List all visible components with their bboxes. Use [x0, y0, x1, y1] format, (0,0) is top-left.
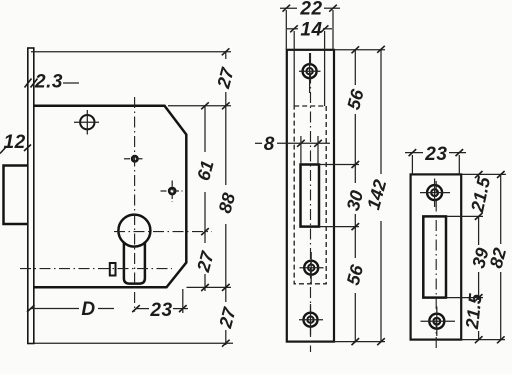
- svg-text:D: D: [81, 299, 95, 320]
- svg-text:23: 23: [424, 144, 447, 165]
- extension line case top right: [168, 105, 231, 107]
- extension lines for 14 down to dashed rect: [293, 31, 295, 106]
- dim line x355: 56 30 56: [343, 46, 368, 345]
- screw hole 1: [420, 179, 450, 208]
- plate vertical centerline: [435, 181, 437, 350]
- crosshair through cylinder circle: [114, 231, 212, 233]
- plate outline: [287, 50, 334, 342]
- dashed case outline behind plate: [294, 106, 326, 284]
- extension plate bottom right: [334, 341, 385, 343]
- deadbolt: [4, 166, 28, 225]
- extension slot top: [446, 215, 483, 217]
- faceplate (edge view): [28, 48, 34, 344]
- dim 8 slot width: [255, 134, 330, 165]
- hole A top-left: [74, 110, 99, 135]
- euro cylinder hole: [118, 215, 150, 284]
- dim 22: [280, 0, 340, 20]
- dim line x205: 61 and 27: [193, 102, 218, 291]
- extension plate bottom: [461, 339, 505, 341]
- dim D line: [27, 299, 114, 320]
- bolt slot: [301, 165, 320, 227]
- svg-text:12: 12: [4, 132, 26, 153]
- dim line x500: 82: [486, 171, 511, 343]
- vertical centerline cylinder axis: [134, 97, 136, 312]
- svg-text:22: 22: [299, 0, 322, 20]
- dim 12 bolt projection: [0, 132, 31, 154]
- plate vertical centerline: [310, 53, 312, 352]
- pin rectangle left of cylinder: [110, 263, 116, 276]
- svg-text:2.3: 2.3: [34, 72, 63, 93]
- extension lines for 23: [411, 155, 413, 174]
- extension slot bottom: [446, 297, 483, 299]
- screw hole 2: [421, 307, 456, 337]
- extension slot bottom: [319, 226, 359, 228]
- dim 2.3 faceplate thickness: [25, 72, 80, 93]
- small hole B center: [124, 156, 145, 161]
- top dimension line from faceplate top: [31, 51, 231, 53]
- svg-text:23: 23: [149, 300, 172, 321]
- extension lines for 22: [285, 10, 287, 50]
- dim 23: [405, 144, 466, 165]
- dim 23 backset: [132, 289, 188, 321]
- latch slot: [423, 216, 446, 297]
- plate outline: [411, 174, 462, 339]
- dim line x226: 27 88 27: [213, 52, 240, 347]
- lock case outline: [34, 106, 187, 287]
- extension plate top right: [334, 49, 385, 51]
- svg-text:21.5: 21.5: [462, 292, 486, 331]
- dim 14: [287, 19, 332, 40]
- horizontal centerline follower axis: [20, 268, 172, 270]
- screw hole 2: [300, 252, 324, 283]
- svg-text:14: 14: [300, 19, 322, 40]
- small hole C: [161, 181, 183, 203]
- screw hole 1: [299, 53, 321, 93]
- extension slot top: [319, 164, 359, 166]
- extension line faceplate bottom: [34, 342, 233, 344]
- extension plate top right: [461, 173, 506, 175]
- svg-text:8: 8: [264, 134, 275, 155]
- extension line case bottom right: [187, 286, 232, 288]
- screw hole 3: [299, 304, 323, 335]
- dim line x478: 21.5 39 21.5: [462, 171, 494, 343]
- tick top 27: [222, 48, 230, 55]
- dim line x381: 142: [363, 46, 390, 345]
